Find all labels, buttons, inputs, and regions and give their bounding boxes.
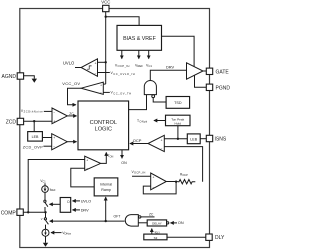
node VCC junction <box>105 16 107 18</box>
svg-text:OCP: OCP <box>133 138 142 143</box>
node COMP junction B <box>44 211 46 213</box>
node CS junction <box>177 138 179 140</box>
svg-text:VC1: VC1 <box>146 63 152 68</box>
svg-text:Ramp: Ramp <box>101 188 111 192</box>
svg-text:PGND: PGND <box>216 85 231 91</box>
svg-text:DLY: DLY <box>215 235 225 241</box>
wire LEB to OVP comparator <box>42 137 51 139</box>
svg-text:CONTROL: CONTROL <box>90 120 117 126</box>
node ZCD junction <box>33 120 35 122</box>
current sink VDHys <box>42 229 72 236</box>
svg-text:LEB: LEB <box>190 137 197 141</box>
comparator OCP <box>130 135 203 181</box>
svg-text:+: + <box>53 136 55 140</box>
wire driver to PGND <box>195 75 207 87</box>
svg-text:IREF: IREF <box>50 187 56 192</box>
pin AGND <box>2 73 24 80</box>
comparator ZCD_OVP <box>23 134 77 150</box>
ground AGND symbol <box>24 76 37 83</box>
pin ISNS <box>206 135 227 142</box>
svg-text:+: + <box>86 158 88 162</box>
svg-text:DELAY: DELAY <box>152 222 162 226</box>
wire ZCD net <box>24 120 52 122</box>
wire ZCD to LEB <box>33 121 35 131</box>
wire VREF reference arrow <box>138 50 140 58</box>
wire BIAS output to driver supply <box>162 36 195 66</box>
svg-text:−: − <box>161 147 163 151</box>
svg-text:+: + <box>53 119 55 123</box>
ground COMP sink <box>43 236 48 247</box>
svg-text:ON: ON <box>121 161 127 165</box>
svg-text:VDHys: VDHys <box>62 231 71 236</box>
wire VOCP_fH reference arrow <box>121 50 123 58</box>
svg-text:−: − <box>100 91 102 95</box>
block DELAY <box>147 220 184 226</box>
svg-text:LEB: LEB <box>32 135 39 139</box>
svg-text:AGND: AGND <box>2 74 17 80</box>
block Internal Ramp <box>94 178 118 196</box>
svg-text:+: + <box>95 61 97 65</box>
comparator VCC_OV <box>62 81 131 105</box>
svg-text:GATE: GATE <box>216 69 230 75</box>
node COMP junction A <box>27 211 29 213</box>
svg-text:VREF: VREF <box>135 63 143 68</box>
comparator UVLO <box>63 59 135 77</box>
svg-text:COMP: COMP <box>1 210 17 216</box>
wire LEB to ISNS <box>200 138 206 140</box>
svg-text:OFT: OFT <box>114 214 121 218</box>
logic block D driver <box>50 198 92 213</box>
pin COMP <box>1 209 24 216</box>
svg-text:VCC_OV: VCC_OV <box>62 81 80 86</box>
svg-text:V: V <box>41 217 43 221</box>
node buffer output junction <box>175 181 177 183</box>
svg-text:DRV: DRV <box>166 65 175 70</box>
wire tDLY <box>152 229 161 236</box>
wire COMP net <box>24 211 46 213</box>
svg-text:VCC_UVLO_fH: VCC_UVLO_fH <box>111 71 136 76</box>
svg-text:VC1: VC1 <box>40 179 46 184</box>
svg-text:ZC: ZC <box>149 213 154 217</box>
pin VCC <box>101 0 110 12</box>
svg-text:UVLO: UVLO <box>63 61 75 66</box>
svg-text:ISNS: ISNS <box>215 137 227 143</box>
switch S2 <box>44 212 48 229</box>
svg-text:VOCP_fH: VOCP_fH <box>115 63 130 68</box>
svg-text:BIAS & VREF: BIAS & VREF <box>123 36 156 42</box>
comparator ZCD <box>21 108 77 124</box>
block TSD <box>166 97 190 109</box>
svg-text:VCC: VCC <box>101 0 110 5</box>
svg-text:ZCD_OVP: ZCD_OVP <box>23 146 44 150</box>
svg-text:Hold: Hold <box>175 121 182 125</box>
op-amp OCP buffer <box>132 170 178 194</box>
svg-text:−: − <box>152 186 154 190</box>
svg-text:−: − <box>53 110 55 114</box>
gate AND drive <box>129 65 187 110</box>
svg-text:TON: TON <box>108 154 114 159</box>
pin ZCD <box>6 118 24 125</box>
block CONTROL LOGIC <box>78 101 129 150</box>
pin DLY <box>206 234 225 241</box>
wire VCC to BIAS <box>106 17 139 26</box>
pin GATE <box>206 68 229 75</box>
svg-text:−: − <box>53 145 55 149</box>
svg-text:ROCP: ROCP <box>180 173 188 178</box>
IC boundary <box>20 9 210 248</box>
BIAS & VREF block <box>117 25 162 50</box>
svg-text:TSD: TSD <box>174 101 182 105</box>
block S3 <box>144 234 207 240</box>
svg-text:VZCDthNoise: VZCDthNoise <box>21 109 43 114</box>
wire OFT control line <box>50 220 125 222</box>
svg-text:−: − <box>95 71 97 75</box>
block LEB (ZCD side) <box>28 132 43 142</box>
svg-text:+: + <box>152 176 154 180</box>
svg-text:+: + <box>100 83 102 87</box>
svg-text:S3: S3 <box>154 236 158 240</box>
svg-text:VCC_OV_TH: VCC_OV_TH <box>111 91 132 96</box>
svg-text:TONpk: TONpk <box>137 119 148 124</box>
wire VC1 reference arrow <box>148 50 150 58</box>
svg-text:ON: ON <box>178 221 184 225</box>
svg-text:−: − <box>86 166 88 170</box>
switch S1 <box>44 192 48 212</box>
node UVLO tap <box>105 61 107 63</box>
resistor ROCP <box>178 173 196 184</box>
label ON output of control logic <box>121 150 127 165</box>
gate NAND OFT <box>125 213 154 227</box>
pin PGND <box>206 84 230 91</box>
wire TONpk output <box>137 119 166 124</box>
block Ton Peak Hold <box>166 115 191 126</box>
svg-text:+: + <box>161 138 163 142</box>
driver output buffer <box>187 63 207 79</box>
block LEB (ISNS side) <box>187 134 200 144</box>
svg-text:ZCD: ZCD <box>6 120 17 126</box>
node OFT junction <box>105 220 107 222</box>
svg-text:LOGIC: LOGIC <box>95 127 112 133</box>
wire hold to CS net <box>177 126 179 139</box>
svg-text:DRV: DRV <box>81 208 89 212</box>
svg-text:Internal: Internal <box>100 182 112 186</box>
svg-text:UVLO: UVLO <box>81 199 91 203</box>
wire OFT into ramp <box>105 197 107 221</box>
svg-text:VOCP_fH: VOCP_fH <box>132 170 146 175</box>
svg-text:ZC: ZC <box>69 112 74 116</box>
comparator PWM <box>28 153 113 213</box>
wire VCC net vertical <box>105 12 107 84</box>
current source IREF <box>42 183 56 192</box>
